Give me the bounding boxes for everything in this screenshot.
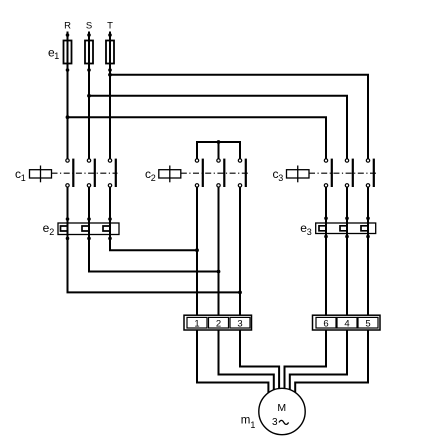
node T (phase label) (107, 21, 113, 32)
mechanical link c3 (dash-dot) (309, 172, 376, 174)
wire phase S drop from label through fuse e1 to contactor c1 (88, 32, 90, 161)
contactor coil c2 label (145, 167, 156, 183)
junction dot e3 top 1 (324, 217, 328, 221)
wire terminal 2 to motor m1 (219, 330, 274, 395)
junction dot e2 top phase S (87, 217, 91, 221)
junction dot on S above fuse (87, 33, 91, 37)
svg-text:M: M (277, 402, 286, 414)
wire star-point bus of contactor c2 (197, 142, 240, 161)
wire phase T branch to contactor c3 pole 3 (110, 75, 368, 161)
wire phase T drop from label through fuse e1 to contactor c1 (109, 32, 111, 161)
svg-text:S: S (86, 21, 92, 32)
wire phase R drop from label through fuse e1 to contactor c1 (67, 32, 69, 161)
svg-text:1: 1 (54, 51, 59, 61)
svg-text:4: 4 (344, 319, 349, 330)
junction dot on R above fuse (66, 33, 70, 37)
overload e3 heater element 1 (319, 226, 326, 231)
junction dot e2 bottom phase S (87, 237, 91, 241)
terminal block left (pins 1 2 3) (184, 315, 252, 330)
contactor c2 main contact pole 3 (238, 159, 246, 187)
junction node terminal 1 feed (195, 248, 199, 252)
overload e3 heater element 2 (340, 226, 347, 231)
svg-text:1: 1 (250, 420, 255, 430)
contactor c2 main contact pole 2 (217, 159, 225, 187)
overload relay e2 body (58, 223, 119, 235)
mechanical link c1 (dash-dot) (52, 172, 118, 174)
terminal pin 4 (337, 317, 357, 329)
wire c3 pole 3 output through e3 to terminal block (367, 185, 369, 315)
contactor c3 main contact pole 2 (345, 159, 353, 187)
overload relay e3 label (300, 221, 312, 237)
svg-text:2: 2 (216, 319, 221, 330)
svg-text:3: 3 (307, 227, 312, 237)
contactor c1 main contact pole 2 (87, 159, 95, 187)
contactor c1 main contact pole 3 (108, 159, 116, 187)
contactor c3 main contact pole 1 (324, 159, 332, 187)
svg-text:2: 2 (151, 173, 156, 183)
junction dot e3 bottom 2 (345, 235, 349, 239)
contactor c1 main contact pole 1 (66, 159, 74, 187)
wire phase S branch to contactor c3 pole 2 (89, 96, 347, 161)
junction node on star bus (217, 140, 221, 144)
wire c2 pole 2 output down to terminal block pin 2 (218, 185, 220, 315)
junction node T branch (108, 73, 112, 77)
junction dot on T below fuse (108, 68, 112, 72)
node R (phase label) (64, 21, 71, 32)
contactor c2 main contact pole 1 (195, 159, 203, 187)
svg-text:R: R (64, 21, 71, 32)
overload relay e3 body (316, 223, 376, 234)
overload e3 heater element 3 (361, 226, 368, 231)
svg-text:5: 5 (365, 319, 370, 330)
svg-text:6: 6 (323, 319, 328, 330)
wire terminal 6 to motor m1 (285, 330, 327, 395)
node S (phase label) (86, 21, 92, 32)
junction dot e2 bottom phase R (66, 237, 70, 241)
terminal pin 1 (187, 317, 207, 329)
junction node R branch (66, 115, 70, 119)
contactor coil c1 (30, 166, 52, 183)
junction dot e3 top 2 (345, 217, 349, 221)
svg-text:m: m (241, 415, 251, 427)
terminal pin 5 (358, 317, 378, 329)
contactor coil c1 label (15, 167, 26, 183)
motor m1 (M 3~) (259, 388, 305, 434)
terminal pin 6 (316, 317, 336, 329)
wire c3 pole 1 output through e3 to terminal block (325, 185, 327, 315)
contactor coil c2 (159, 166, 181, 183)
junction dot on S below fuse (87, 68, 91, 72)
wire c1 pole T output through e2 to terminal 1 junction (110, 185, 197, 250)
wire c3 pole 2 output through e3 to terminal block (346, 185, 348, 315)
wire c2 pole 1 output down to terminal block pin 1 (196, 185, 198, 315)
svg-text:1: 1 (194, 319, 199, 330)
junction dot on T above fuse (108, 33, 112, 37)
junction dot on R below fuse (66, 68, 70, 72)
junction dot e3 bottom 1 (324, 235, 328, 239)
mechanical link c2 (dash-dot) (181, 172, 248, 174)
terminal block right (pins 6 4 5) (313, 315, 381, 330)
svg-text:3: 3 (237, 319, 242, 330)
overload e2 heater element phase S (82, 226, 89, 231)
junction node S branch (87, 94, 91, 98)
terminal pin 3 (230, 317, 250, 329)
overload e2 heater element phase R (61, 226, 68, 231)
wire c1 pole R output through e2 to terminal 3 junction (68, 185, 241, 292)
wire c2 pole 3 output down to terminal block pin 3 (239, 185, 241, 315)
fuse e1 element on phase S (85, 41, 93, 64)
wire terminal 4 to motor m1 (290, 330, 347, 395)
junction dot e3 top 3 (366, 217, 370, 221)
terminal pin 2 (209, 317, 229, 329)
contactor c3 main contact pole 3 (366, 159, 374, 187)
junction dot e2 top phase R (66, 217, 70, 221)
wire terminal 3 to motor m1 (240, 330, 279, 395)
svg-text:2: 2 (49, 227, 54, 237)
wire terminal 5 to motor m1 (295, 330, 368, 395)
junction node terminal 3 feed (238, 291, 242, 295)
motor m1 label (241, 415, 256, 430)
overload e2 heater element phase T (103, 226, 110, 231)
fuse e1 element on phase T (106, 41, 114, 64)
svg-text:T: T (107, 21, 113, 32)
wire terminal 1 to motor m1 (197, 330, 268, 395)
fuse e1 element on phase R (64, 41, 72, 64)
wire phase R branch to contactor c3 pole 1 (68, 117, 327, 160)
wire c1 pole S output through e2 to terminal 2 junction (89, 185, 219, 271)
junction dot e3 bottom 3 (366, 235, 370, 239)
overload relay e2 label (43, 221, 55, 237)
svg-text:1: 1 (21, 173, 26, 183)
junction dot e2 bottom phase T (108, 237, 112, 241)
svg-text:3: 3 (278, 173, 283, 183)
contactor coil c3 label (273, 167, 284, 183)
fuse e1 label (48, 45, 59, 61)
svg-text:3: 3 (272, 417, 278, 428)
contactor coil c3 (287, 166, 310, 183)
junction dot e2 top phase T (108, 217, 112, 221)
junction node terminal 2 feed (217, 270, 221, 274)
